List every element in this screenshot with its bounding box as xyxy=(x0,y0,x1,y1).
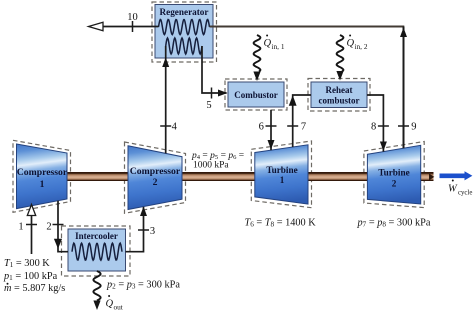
svg-text:combustor: combustor xyxy=(319,95,360,105)
svg-text:Combustor: Combustor xyxy=(234,90,278,100)
svg-text:T6 = T8 = 1400 K: T6 = T8 = 1400 K xyxy=(245,218,317,229)
svg-text:Q: Q xyxy=(347,38,355,49)
svg-text:cycle: cycle xyxy=(458,190,472,197)
svg-text:Turbine: Turbine xyxy=(266,165,297,175)
svg-text:m = 5.807 kg/s: m = 5.807 kg/s xyxy=(4,283,65,294)
svg-text:3: 3 xyxy=(150,226,155,237)
svg-text:in, 1: in, 1 xyxy=(272,42,285,51)
svg-text:in, 2: in, 2 xyxy=(355,42,368,51)
svg-text:9: 9 xyxy=(411,122,416,133)
svg-text:out: out xyxy=(114,303,123,312)
svg-text:2: 2 xyxy=(46,222,51,233)
svg-text:Reheat: Reheat xyxy=(326,85,353,95)
svg-text:p7 = p8 = 300 kPa: p7 = p8 = 300 kPa xyxy=(357,218,431,229)
svg-text:Intercooler: Intercooler xyxy=(75,231,118,241)
svg-text:4: 4 xyxy=(172,122,178,133)
svg-text:7: 7 xyxy=(301,122,306,133)
svg-text:1: 1 xyxy=(40,179,45,190)
svg-text:Turbine: Turbine xyxy=(378,168,409,178)
svg-text:2: 2 xyxy=(392,179,397,189)
svg-text:2: 2 xyxy=(153,177,158,188)
svg-text:8: 8 xyxy=(371,122,376,133)
svg-text:Compressor: Compressor xyxy=(17,167,68,178)
svg-text:p2 = p3 = 300 kPa: p2 = p3 = 300 kPa xyxy=(106,280,180,291)
svg-text:6: 6 xyxy=(259,122,264,133)
svg-text:1000 kPa: 1000 kPa xyxy=(193,161,229,171)
svg-text:Regenerator: Regenerator xyxy=(160,7,209,17)
svg-text:5: 5 xyxy=(206,100,211,111)
svg-text:Q: Q xyxy=(106,299,114,310)
svg-text:Q: Q xyxy=(264,38,272,49)
svg-text:Compressor: Compressor xyxy=(130,166,181,177)
svg-text:10: 10 xyxy=(127,12,138,23)
svg-text:W: W xyxy=(448,184,458,195)
svg-text:1: 1 xyxy=(280,175,285,185)
svg-text:1: 1 xyxy=(18,222,23,233)
